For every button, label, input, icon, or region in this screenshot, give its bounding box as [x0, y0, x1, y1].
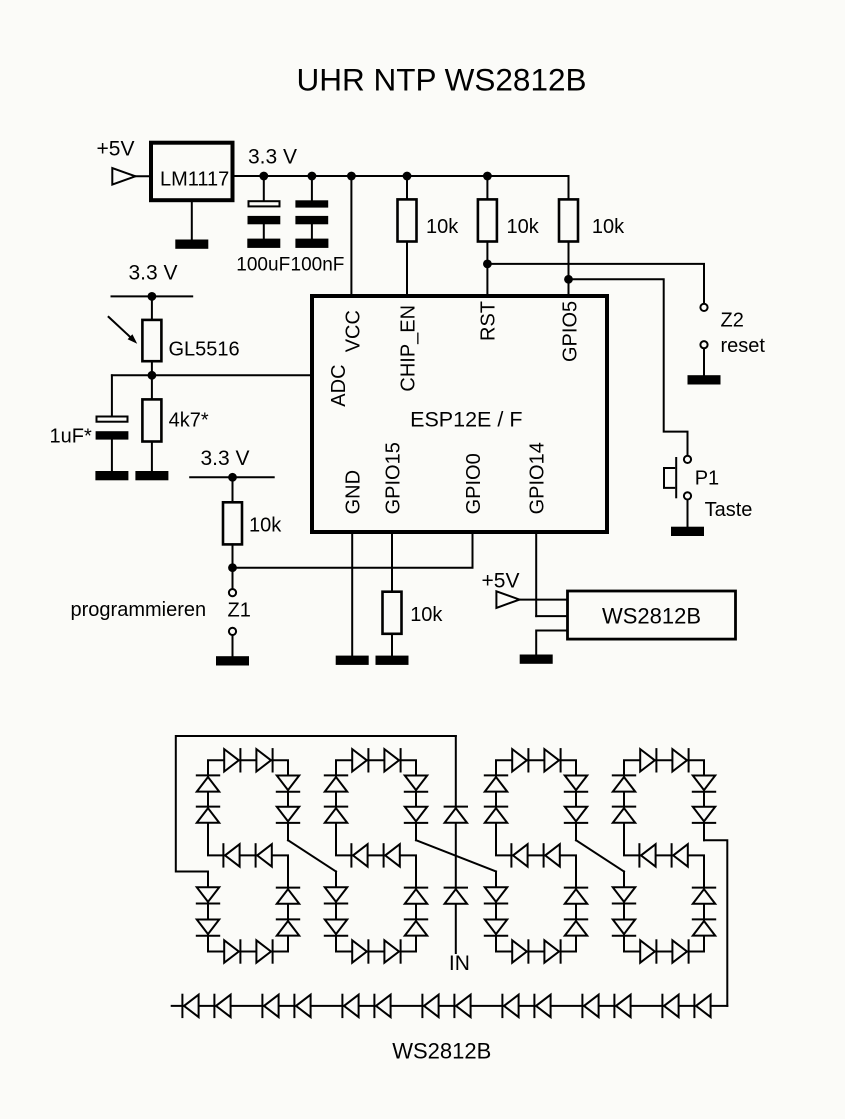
terminal P1 pin1 [684, 456, 691, 463]
LED chain pair4 1 [422, 995, 438, 1017]
wire R7 to gnd [391, 634, 393, 656]
wire rail to LDR [151, 296, 153, 320]
svg-text:Z1: Z1 [228, 599, 251, 621]
LED chain pair4 2 [454, 995, 470, 1017]
wire GPIO5 net [568, 176, 570, 296]
LED digit2 seg-g 2 [351, 844, 367, 866]
svg-text:10k: 10k [249, 515, 282, 537]
LED digit2 seg-d 1 [352, 940, 368, 962]
svg-text:GPIO15: GPIO15 [382, 442, 404, 514]
wire GPIO14 wire [535, 532, 537, 616]
LED digit2 seg-g 1 [384, 844, 400, 866]
svg-text:programmieren: programmieren [71, 599, 207, 621]
wire Z1 3.3V rail [190, 476, 274, 478]
regulator U1 LM1117 [151, 143, 233, 201]
wire LDR to node [151, 361, 153, 399]
wire strip gnd pin [536, 631, 567, 655]
LED colon upper [445, 807, 467, 823]
svg-text:CHIP_EN: CHIP_EN [397, 305, 419, 392]
wire rail to R6 [232, 477, 234, 502]
resistor R6 10k (GPIO0) [223, 502, 282, 544]
LED digit3 seg-b 2 [565, 807, 587, 823]
wire colon / IN line [455, 736, 457, 953]
svg-text:RST: RST [478, 301, 500, 341]
wire GPIO15 wire [391, 532, 393, 592]
LED digit2 seg-a 2 [384, 749, 400, 771]
LED digit3 seg-c 2 [565, 888, 587, 904]
ground under P1 [671, 527, 704, 536]
LED digit2 seg-f 1 [325, 807, 347, 823]
wire GPIO0 wire [233, 532, 473, 568]
LED chain pair5 2 [534, 995, 550, 1017]
LED digit3 seg-f 1 [485, 807, 507, 823]
LED digit2 seg-b 1 [405, 776, 427, 792]
LED digit2 seg-c 2 [405, 888, 427, 904]
resistor R3 10k (GPIO5) [559, 199, 625, 241]
svg-text:GPIO0: GPIO0 [463, 453, 485, 514]
wire LDR 3.3V rail [112, 295, 193, 297]
LED chain pair6 1 [582, 995, 598, 1017]
node rail-C2 [308, 172, 317, 181]
wire LED input rail [176, 736, 456, 872]
LED colon lower [445, 888, 467, 904]
LED digit3 seg-a 1 [512, 749, 528, 771]
LED digit2 seg-f 2 [325, 775, 347, 791]
node LDR rail [148, 292, 157, 301]
wire GND wire [351, 532, 353, 656]
svg-text:IN: IN [449, 952, 470, 975]
LED digit2 seg-d 2 [384, 940, 400, 962]
LED chain pair7 2 [694, 995, 710, 1017]
ground under R7 [376, 656, 409, 665]
svg-text:10k: 10k [592, 216, 625, 238]
LED digit2 seg-c 1 [405, 919, 427, 935]
LED digit1 seg-d 2 [256, 940, 272, 962]
wire +5V to strip [520, 599, 568, 601]
svg-text:10k: 10k [426, 216, 459, 238]
ground under strip [520, 655, 553, 664]
svg-text:ADC: ADC [328, 364, 350, 406]
LED digit4 seg-a 1 [640, 749, 656, 771]
ground under C1 [247, 239, 280, 248]
wire Z1 to gnd [232, 635, 234, 656]
LED digit1 seg-d 1 [224, 940, 240, 962]
svg-text:+5V: +5V [97, 137, 135, 160]
LED digit1 seg-g 1 [256, 844, 272, 866]
svg-text:100uF: 100uF [236, 255, 290, 276]
node GPIO0 node [228, 563, 237, 572]
wire 3.3V rail [233, 175, 569, 177]
wire ADC wire [112, 374, 312, 376]
LED digit2 seg-a 1 [352, 749, 368, 771]
svg-text:GPIO5: GPIO5 [559, 301, 581, 362]
LED chain pair3 2 [374, 995, 390, 1017]
ground under LM1117 [175, 240, 208, 249]
LED chain pair1 2 [214, 995, 230, 1017]
pushbutton P1 [664, 458, 676, 497]
svg-text:VCC: VCC [342, 310, 364, 352]
svg-text:WS2812B: WS2812B [602, 604, 701, 629]
wire +5V to LM1117 [135, 175, 151, 177]
wire digit2 outline [336, 760, 416, 951]
node rail-VCC [347, 172, 356, 181]
wire VCC [350, 176, 352, 296]
LED digit1 seg-b 2 [277, 807, 299, 823]
svg-text:GL5516: GL5516 [169, 339, 240, 361]
wire digit4 outline [624, 760, 704, 951]
wire 4k7 to gnd [151, 442, 153, 472]
svg-text:4k7*: 4k7* [169, 410, 209, 432]
wire RST net [486, 176, 488, 296]
svg-text:ESP12E / F: ESP12E / F [410, 408, 522, 432]
svg-text:P1: P1 [695, 467, 719, 489]
svg-text:GPIO14: GPIO14 [527, 442, 549, 514]
LED chain pair2 2 [294, 995, 310, 1017]
LED digit1 seg-a 2 [256, 749, 272, 771]
node rail-C1 [259, 172, 268, 181]
ground under ESP GND [336, 656, 369, 665]
ground under Z1 [216, 656, 249, 665]
LED digit4 seg-a 2 [672, 749, 688, 771]
wire digit4 to chain [704, 840, 727, 1006]
wire Z2 to gnd [703, 348, 705, 375]
LED digit1 seg-a 1 [224, 749, 240, 771]
LED digit1 seg-c 1 [277, 919, 299, 935]
terminal Z2 pin1 [700, 304, 707, 311]
wire digit3 outline [496, 760, 576, 951]
capacitor C1 100uF [248, 176, 281, 239]
wire digit1-digit2 link [288, 840, 336, 871]
ground under C2 [295, 239, 328, 248]
resistor R1 10k (CHIP_EN) [398, 199, 460, 241]
LED digit4 seg-g 1 [672, 844, 688, 866]
LED digit4 seg-d 1 [640, 940, 656, 962]
LED digit3 seg-e 1 [485, 887, 507, 903]
LED digit2 seg-b 2 [405, 807, 427, 823]
svg-text:10k: 10k [507, 216, 540, 238]
LED digit3 seg-c 1 [565, 919, 587, 935]
connector U3 WS2812B strip [568, 591, 736, 639]
LED digit4 seg-b 1 [693, 776, 715, 792]
LED digit4 seg-e 2 [613, 920, 635, 936]
LED digit3 seg-d 1 [512, 940, 528, 962]
wire GPIO14 to DIN [536, 615, 567, 617]
LED digit3 seg-d 2 [544, 940, 560, 962]
LED digit3 seg-e 2 [485, 920, 507, 936]
node GPIO5-P1 [564, 275, 573, 284]
wire digit3-digit4 link [576, 840, 624, 871]
LED digit4 seg-f 1 [613, 807, 635, 823]
svg-text:3.3 V: 3.3 V [129, 262, 178, 285]
photoresistor R4 GL5516 [109, 317, 240, 361]
LED digit4 seg-g 2 [639, 844, 655, 866]
svg-text:LM1117: LM1117 [160, 169, 229, 191]
node rail-R2 [483, 172, 492, 181]
node RST-Z2 [483, 260, 492, 269]
LED digit3 seg-g 2 [511, 844, 527, 866]
LED chain pair2 1 [262, 995, 278, 1017]
svg-text:10k: 10k [410, 604, 443, 626]
capacitor C2 100nF [295, 176, 328, 239]
node rail-R1 [403, 172, 412, 181]
module U2 ESP12E/F [312, 296, 607, 532]
LED digit3 seg-f 2 [485, 775, 507, 791]
node Z1 rail [228, 473, 237, 482]
LED digit1 seg-b 1 [277, 776, 299, 792]
LED digit1 seg-f 2 [197, 775, 219, 791]
LED digit3 seg-b 1 [565, 776, 587, 792]
LED chain pair3 1 [342, 995, 358, 1017]
LED digit4 seg-f 2 [613, 775, 635, 791]
svg-text:WS2812B: WS2812B [392, 1038, 491, 1063]
svg-text:3.3 V: 3.3 V [201, 447, 250, 470]
wire LM1117 gnd stub [191, 200, 193, 239]
ground under Z2 [688, 375, 721, 384]
LED digit1 seg-e 1 [197, 887, 219, 903]
terminal P1 pin2 [684, 492, 691, 499]
wire RST to Z2 [487, 264, 704, 304]
svg-text:reset: reset [721, 335, 766, 357]
resistor R5 4k7 [142, 399, 161, 441]
capacitor C3 1uF [96, 375, 129, 471]
LED digit2 seg-e 1 [325, 887, 347, 903]
svg-text:GND: GND [343, 470, 365, 514]
wire digit2-digit3 link [416, 840, 496, 871]
resistor R2 10k (RST) [478, 199, 540, 241]
LED chain pair6 2 [614, 995, 630, 1017]
wire P1 to gnd [687, 500, 689, 527]
LED digit2 seg-e 2 [325, 920, 347, 936]
svg-text:UHR NTP WS2812B: UHR NTP WS2812B [296, 62, 586, 98]
LED digit4 seg-b 2 [693, 807, 715, 823]
LED digit3 seg-a 2 [544, 749, 560, 771]
svg-text:100nF: 100nF [291, 255, 345, 276]
LED digit1 seg-g 2 [223, 844, 239, 866]
LED digit3 seg-g 1 [544, 844, 560, 866]
wire CHIP_EN net [406, 176, 408, 296]
terminal Z1 pin2 [229, 628, 236, 635]
LED digit1 seg-f 1 [197, 807, 219, 823]
LED digit4 seg-e 1 [613, 887, 635, 903]
terminal Z1 pin1 [229, 589, 236, 596]
svg-text:Taste: Taste [705, 499, 753, 521]
wire R6 to node [232, 544, 234, 567]
supply +5V LED strip supply [482, 570, 520, 608]
wire node to Z1 [232, 568, 234, 589]
LED digit4 seg-c 1 [693, 919, 715, 935]
supply +5V P+5V input [97, 137, 136, 184]
svg-text:1uF*: 1uF* [50, 426, 92, 448]
ground under C3 [95, 471, 128, 480]
node ADC node [148, 371, 157, 380]
wire digit1 outline [208, 760, 288, 951]
terminal Z2 pin2 [700, 341, 707, 348]
wire GPIO5 to P1 [569, 279, 688, 456]
LED digit1 seg-e 2 [197, 920, 219, 936]
svg-text:+5V: +5V [482, 570, 520, 593]
LED chain pair5 1 [502, 995, 518, 1017]
LED chain pair7 1 [662, 995, 678, 1017]
resistor R7 10k (GPIO15) [383, 592, 444, 634]
LED digit4 seg-c 2 [693, 888, 715, 904]
svg-text:3.3 V: 3.3 V [248, 145, 297, 168]
LED digit1 seg-c 2 [277, 888, 299, 904]
wire bottom chain wire [172, 1005, 728, 1007]
svg-text:Z2: Z2 [721, 310, 744, 332]
LED digit4 seg-d 2 [672, 940, 688, 962]
ground under 4k7 [135, 471, 168, 480]
LED chain pair1 1 [182, 995, 198, 1017]
